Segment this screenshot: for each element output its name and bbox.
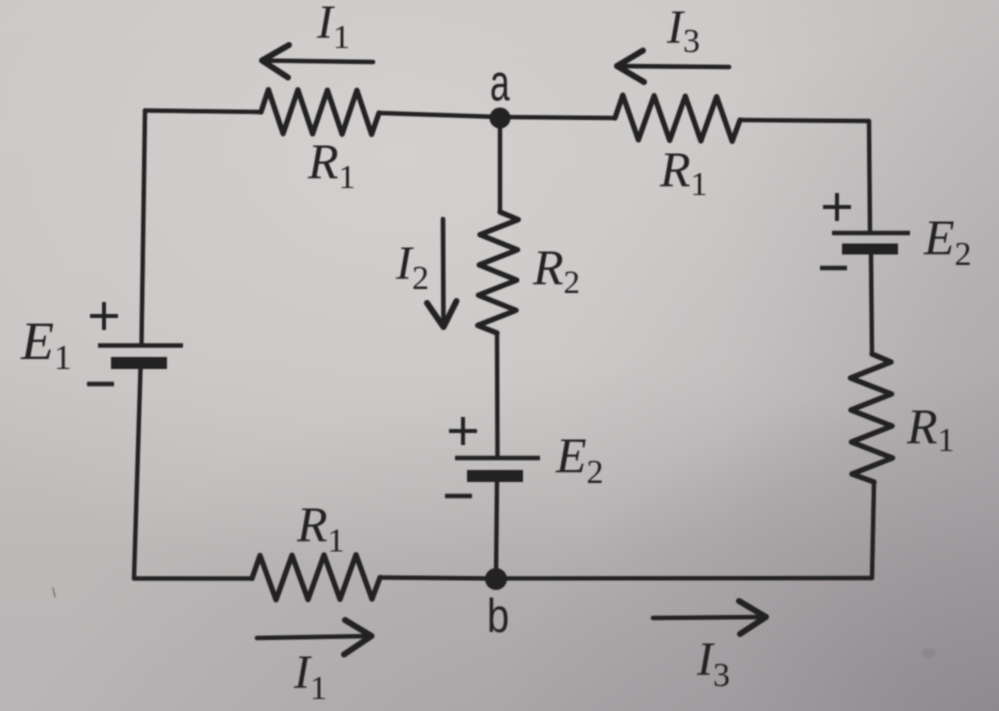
bottom wire left lead [134, 576, 252, 580]
bottom wire through node b to right corner [380, 578, 872, 579]
wire zigzag to node a [379, 113, 500, 117]
plus sign E2 right [823, 193, 851, 221]
node a [490, 108, 511, 129]
resistor R1 right zigzag [850, 354, 892, 482]
resistor R1 bottom zigzag [252, 555, 380, 600]
resistor R1 top-left zigzag [261, 90, 379, 135]
arrow I3 top (left-pointing) [617, 51, 729, 83]
wire top-left lead [145, 111, 261, 113]
plus sign E2 middle [449, 417, 477, 445]
paper speck [53, 588, 55, 597]
resistor R1 top-right zigzag [615, 95, 740, 141]
battery E2 right long plate [832, 231, 910, 235]
left wire down to battery E1 [142, 111, 146, 346]
svg-text:b: b [487, 591, 509, 643]
minus sign E2 middle [445, 494, 472, 499]
battery E2 middle long plate [455, 456, 540, 460]
left wire below battery to bottom corner [134, 369, 141, 579]
wire node a to top-right resistor [500, 117, 615, 118]
middle wire R2 to battery E2 [495, 333, 500, 456]
middle wire battery to node b [496, 482, 497, 579]
battery E1 thick plate [111, 357, 167, 369]
battery E2 right thick plate [842, 244, 898, 255]
svg-text:a: a [490, 55, 510, 112]
paper smudge [922, 648, 936, 658]
middle wire node a down to R2 [498, 118, 502, 212]
node label a [490, 55, 510, 112]
plus sign E1 [90, 302, 118, 330]
resistor R2 middle zigzag [478, 212, 519, 333]
battery E1 long plate [98, 343, 183, 347]
arrow I1 top (left-pointing) [262, 45, 373, 78]
node b [485, 568, 507, 590]
arrow I3 bottom (right-pointing) [653, 601, 766, 634]
right wire down to battery E2 [869, 121, 870, 231]
arrow I2 middle (down-pointing) [427, 219, 457, 327]
right wire to bottom corner [872, 482, 874, 578]
wire to top-right corner [740, 120, 869, 121]
minus sign E1 [87, 382, 114, 387]
battery E2 middle thick plate [467, 470, 523, 482]
arrow I1 bottom (right-pointing) [257, 620, 372, 655]
right wire battery to resistor [871, 255, 872, 355]
node label b [487, 591, 509, 643]
minus sign E2 right [820, 266, 847, 271]
